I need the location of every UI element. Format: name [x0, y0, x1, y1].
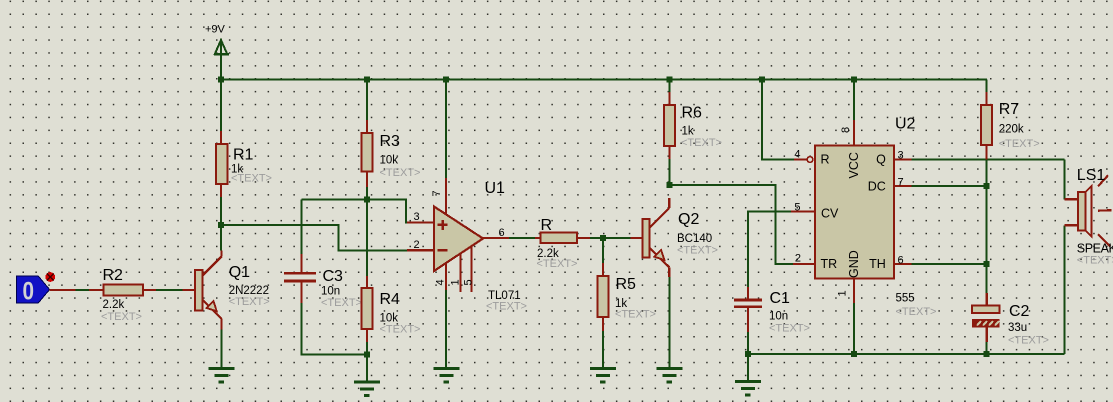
svg-text:4: 4 — [794, 149, 800, 161]
origin marker — [45, 272, 55, 282]
node bus-R3 — [364, 77, 370, 83]
svg-text:R: R — [541, 217, 553, 234]
svg-text:<TEXT>: <TEXT> — [101, 311, 142, 323]
svg-text:U1: U1 — [485, 180, 506, 197]
ground R4 — [354, 382, 380, 395]
svg-text:GND: GND — [847, 250, 861, 278]
node bus-U1pin7 — [443, 77, 449, 83]
svg-text:<TEXT>: <TEXT> — [1077, 255, 1113, 267]
svg-text:1: 1 — [449, 279, 461, 285]
svg-text:<TEXT>: <TEXT> — [231, 173, 272, 185]
speaker LS1 — [1065, 167, 1113, 267]
node TH-R7C2 — [984, 261, 990, 267]
svg-text:Q2: Q2 — [678, 211, 699, 228]
ground U1 — [434, 369, 460, 382]
svg-text:2: 2 — [414, 239, 420, 251]
wire R1 column top — [220, 80, 222, 134]
svg-text:<TEXT>: <TEXT> — [229, 296, 270, 308]
svg-text:220k: 220k — [999, 124, 1024, 136]
wire 555 TH to R7-C2 column — [912, 263, 987, 265]
wire C3 bottom to ground node — [302, 303, 368, 355]
svg-text:7: 7 — [431, 190, 443, 196]
node R3-R4-C3 — [364, 197, 370, 203]
svg-text:<TEXT>: <TEXT> — [1008, 335, 1049, 347]
svg-text:<TEXT>: <TEXT> — [896, 306, 937, 318]
svg-text:<TEXT>: <TEXT> — [380, 324, 421, 336]
wire U1 pin7 from bus — [445, 80, 447, 180]
node R-R5 — [600, 235, 606, 241]
svg-text:4: 4 — [435, 279, 447, 285]
node bus-555R — [759, 77, 765, 83]
svg-text:R: R — [821, 153, 830, 167]
node gndbus-555GND — [851, 351, 857, 357]
node bus-R6 — [666, 77, 672, 83]
node gndbus-C2 — [984, 351, 990, 357]
svg-text:R1: R1 — [233, 147, 254, 164]
timer 555 U2 — [791, 116, 936, 355]
svg-text:C3: C3 — [323, 268, 344, 285]
svg-text:1k: 1k — [682, 126, 694, 138]
svg-text:<TEXT>: <TEXT> — [681, 137, 722, 149]
svg-text:5: 5 — [794, 202, 800, 214]
wire ground bus horizontal — [748, 353, 1065, 355]
svg-text:Q1: Q1 — [229, 264, 250, 281]
svg-text:TH: TH — [869, 257, 886, 271]
ground Q1 — [209, 369, 235, 382]
svg-text:R7: R7 — [999, 101, 1020, 118]
capacitor C2 — [972, 293, 1049, 347]
wire main VCC bus — [221, 79, 987, 81]
wire R6 column top — [668, 80, 670, 94]
svg-text:Q: Q — [876, 153, 886, 167]
wire tag to R2 — [50, 289, 104, 291]
terminal 0 input tag — [17, 276, 50, 305]
wire R2 to Q1 base — [143, 289, 195, 291]
svg-text:3: 3 — [414, 211, 420, 223]
svg-text:R2: R2 — [103, 267, 124, 284]
wire U1 out to R — [483, 237, 541, 239]
svg-text:<TEXT>: <TEXT> — [486, 301, 527, 313]
svg-text:LS1: LS1 — [1077, 167, 1106, 184]
wire R4 bottom to ground node — [366, 342, 368, 355]
svg-text:7: 7 — [898, 177, 904, 189]
svg-text:C1: C1 — [770, 290, 791, 307]
wire R3 bottom to node — [366, 187, 368, 200]
svg-text:555: 555 — [896, 293, 915, 305]
ground R5 — [590, 369, 616, 382]
capacitor C1 — [734, 287, 810, 335]
resistor R1 — [216, 131, 272, 197]
transistor Q1 — [195, 251, 269, 330]
resistor R5 — [598, 263, 656, 331]
svg-text:10n: 10n — [321, 286, 340, 298]
svg-text:R5: R5 — [616, 276, 637, 293]
node DC-R7C2 — [984, 183, 990, 189]
wire Q2 emitter to ground — [668, 277, 670, 369]
resistor R6 — [664, 92, 722, 159]
wire C1 bottom to ground bus — [747, 332, 749, 354]
wire 555 VCC riser — [853, 80, 855, 122]
svg-text:6: 6 — [898, 254, 904, 266]
svg-text:0: 0 — [23, 278, 35, 306]
svg-text:R4: R4 — [380, 291, 401, 308]
wire R3 node down to R4 — [366, 200, 368, 277]
wire R to Q2 base — [577, 237, 642, 239]
svg-text:CV: CV — [821, 207, 839, 221]
svg-text:<TEXT>: <TEXT> — [999, 138, 1040, 150]
node R1-feedback — [218, 222, 224, 228]
wire R7 column down to C2 — [986, 160, 988, 295]
node C1-gndbus — [745, 351, 751, 357]
wire R6 bottom to node — [668, 159, 670, 185]
wire U1 pin4 to ground — [445, 290, 447, 369]
svg-text:<TEXT>: <TEXT> — [677, 245, 718, 257]
wire C2 bottom to ground bus — [986, 342, 988, 354]
node bus-555VCC — [851, 77, 857, 83]
wire C1 node to ground — [747, 354, 749, 382]
wire node to ground — [366, 355, 368, 382]
svg-text:3: 3 — [898, 150, 904, 162]
node R4-C3-ground — [364, 352, 370, 358]
svg-text:BC140: BC140 — [677, 233, 712, 245]
svg-text:VCC: VCC — [847, 152, 861, 178]
svg-text:<TEXT>: <TEXT> — [321, 297, 362, 309]
wire Q1 emitter to ground — [221, 330, 223, 369]
resistor R3 — [362, 120, 421, 187]
wire bus corner down to R7 — [986, 80, 988, 94]
svg-text:2: 2 — [795, 253, 801, 265]
node R6-Q2-TR — [666, 182, 672, 188]
svg-text:C2: C2 — [1009, 303, 1030, 320]
svg-text:33u: 33u — [1008, 322, 1027, 334]
svg-text:DC: DC — [868, 179, 886, 193]
svg-text:1: 1 — [837, 290, 849, 296]
wire R5 to ground — [602, 331, 604, 369]
resistor R4 — [362, 276, 421, 342]
svg-text:+9V: +9V — [205, 24, 226, 36]
ground C1 — [735, 382, 761, 395]
wire feedback to op-amp minus — [221, 225, 407, 250]
wire 555 DC to R7-C2 node — [912, 185, 987, 187]
svg-text:R6: R6 — [682, 105, 703, 122]
svg-text:5: 5 — [462, 279, 474, 285]
svg-text:SPEAKER: SPEAKER — [1077, 242, 1113, 256]
resistor R2 — [101, 267, 143, 323]
wire node to 555 TR — [669, 185, 793, 264]
wire 555 CV to C1 — [748, 212, 791, 289]
svg-text:<TEXT>: <TEXT> — [615, 309, 656, 321]
svg-text:TR: TR — [821, 257, 838, 271]
ground Q2 — [656, 369, 682, 382]
node bus-R1 — [218, 77, 224, 83]
svg-text:10k: 10k — [380, 155, 399, 167]
wire 555 R pin from bus — [762, 80, 794, 160]
wire speaker bottom to ground bus — [1064, 225, 1066, 354]
svg-text:<TEXT>: <TEXT> — [769, 323, 810, 335]
svg-text:10n: 10n — [769, 311, 788, 323]
svg-text:U2: U2 — [895, 116, 916, 133]
wire R3 column top — [366, 80, 368, 122]
wire node to op-amp plus — [302, 200, 408, 223]
resistor R7 — [981, 92, 1039, 160]
svg-text:2.2k: 2.2k — [103, 299, 125, 311]
transistor Q2 — [642, 198, 718, 277]
svg-text:R3: R3 — [380, 133, 401, 150]
power +9V — [205, 24, 229, 80]
wire node down to R5 — [602, 238, 604, 264]
wire 555 Q output to speaker — [912, 160, 1065, 200]
wire R1 to Q1 collector — [220, 197, 222, 251]
svg-text:<TEXT>: <TEXT> — [537, 258, 578, 270]
capacitor C3 — [284, 200, 362, 310]
resistor R — [537, 217, 578, 270]
svg-text:<TEXT>: <TEXT> — [380, 167, 421, 179]
op-amp U1 — [407, 178, 527, 313]
svg-text:8: 8 — [840, 127, 852, 133]
